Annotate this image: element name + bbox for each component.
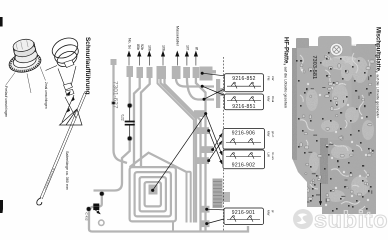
foil traces — [89, 60, 248, 232]
crossing leaders lower connector — [206, 114, 239, 224]
pointer needle — [40, 93, 86, 199]
pointer triangle — [60, 109, 83, 125]
solder pad row — [127, 66, 134, 77]
cable box 9216-906 — [223, 129, 265, 150]
leader to right label — [40, 67, 46, 81]
svg-text:Oval: Oval — [271, 96, 275, 103]
Misch plate photo — [322, 44, 376, 214]
connector pad bar right — [216, 79, 220, 108]
needle end hook — [37, 198, 42, 205]
trace pad C sweep — [141, 77, 150, 167]
svg-text:7303-581: 7303-581 — [311, 56, 317, 80]
svg-text:C 432: C 432 — [85, 213, 89, 221]
leader mid — [27, 74, 31, 94]
svg-text:No, So: No, So — [128, 38, 132, 49]
solder joint dots — [301, 69, 369, 206]
svg-text:0,22: 0,22 — [121, 115, 125, 121]
dark component specks — [296, 52, 374, 212]
trace pad E to finger — [176, 78, 214, 87]
return trace pair right of spiral — [187, 172, 191, 223]
svg-text:10f: 10f — [185, 45, 189, 51]
needle arrowheads — [66, 97, 74, 113]
cord clamp bracket — [64, 83, 75, 96]
svg-text:subito: subito — [314, 207, 388, 233]
leader from spiral centre — [151, 189, 154, 192]
arrows from labels to pads — [127, 51, 197, 65]
svg-text:10b: 10b — [148, 45, 152, 51]
svg-text:gn-rt: gn-rt — [271, 131, 275, 137]
lighter patches — [306, 56, 374, 202]
svg-text:92b: 92b — [140, 44, 144, 50]
left board edge — [89, 194, 102, 232]
svg-text:9216-901: 9216-901 — [232, 210, 256, 216]
page edge mark top-left — [0, 17, 3, 27]
trace pad F to finger — [187, 77, 214, 100]
svg-text:9216-851: 9216-851 — [232, 104, 256, 110]
cable box 9216-852 — [224, 74, 263, 92]
svg-text:1 b: 1 b — [376, 114, 380, 119]
svg-text:Nylonschnur: Nylonschnur — [43, 168, 56, 191]
svg-text:Saitenlänge ca. 360 mm: Saitenlänge ca. 360 mm — [65, 151, 69, 190]
leader at HF plate tip — [320, 183, 322, 205]
shielded cable pad cluster — [213, 179, 231, 209]
short return trace — [158, 79, 194, 223]
crossing cords — [62, 95, 76, 122]
trace pad B down — [134, 77, 140, 167]
svg-text:10b: 10b — [161, 45, 165, 51]
pads under capacitor dots — [127, 103, 133, 109]
leader to left label — [6, 73, 16, 86]
stub pad upper left — [111, 59, 117, 65]
svg-text:Massekabel: Massekabel — [176, 26, 180, 46]
stub trace upper left — [114, 60, 128, 163]
cable box 9216-851 — [224, 94, 263, 110]
subito watermark — [293, 207, 388, 233]
svg-text:HF-Platte, auf die Lötseite ge: HF-Platte, auf die Lötseite gesehen — [283, 37, 289, 108]
svg-text:8f: 8f — [194, 47, 198, 51]
svg-text:85b: 85b — [136, 44, 140, 50]
crossing leaders upper connector — [202, 73, 236, 99]
trace from cap bottom to lower left — [94, 139, 130, 191]
small component lower left — [87, 192, 103, 214]
svg-text:gr: gr — [271, 210, 275, 213]
page edge mark bottom-left — [0, 200, 3, 213]
drive knob with knurled wheel — [7, 37, 43, 75]
trace pad A down to capacitor — [129, 76, 131, 103]
svg-text:Schnurlaufführung: Schnurlaufführung — [84, 37, 91, 95]
cable box 9216-902 — [223, 150, 265, 169]
component noise — [292, 36, 378, 214]
svg-text:9216-902: 9216-902 — [232, 162, 256, 168]
connection labels above pads — [128, 26, 199, 51]
svg-text:FM: FM — [267, 76, 271, 81]
component bodies texture — [300, 55, 374, 201]
svg-text:Freilauf umschlingen: Freilauf umschlingen — [4, 86, 8, 117]
svg-text:MW: MW — [267, 96, 271, 101]
svg-text:2mal umschlingen: 2mal umschlingen — [44, 82, 48, 109]
cord tension spring — [46, 34, 82, 71]
hole ring lower left — [99, 220, 104, 225]
bottom edge trace — [92, 226, 248, 232]
trace pad D sweep — [161, 78, 197, 223]
spiral center pad — [149, 185, 158, 195]
spiral to bottom stub — [172, 222, 174, 232]
svg-text:9216-906: 9216-906 — [232, 131, 256, 137]
cord cone from spring — [58, 66, 76, 88]
HF plate photo — [292, 36, 353, 207]
dashed assembly line — [223, 57, 225, 231]
svg-text:MW: MW — [267, 210, 271, 215]
svg-text:9216-852: 9216-852 — [232, 76, 256, 82]
black junction dots on fingers — [112, 72, 214, 225]
printed spiral coil — [130, 167, 176, 221]
svg-text:br-ws: br-ws — [271, 153, 275, 161]
spiral feed chevron — [130, 153, 187, 172]
svg-text:MW: MW — [267, 131, 271, 136]
shading bands — [292, 48, 297, 160]
svg-text:LW: LW — [271, 76, 275, 80]
lower pad fingers — [194, 110, 213, 227]
finger from big pad G — [211, 70, 216, 73]
svg-text:LW: LW — [267, 153, 271, 157]
white trace squiggles — [300, 53, 370, 210]
screw hole — [330, 43, 343, 56]
cable box 9216-901 — [224, 208, 264, 225]
capacitor overlay across foil — [125, 104, 135, 140]
